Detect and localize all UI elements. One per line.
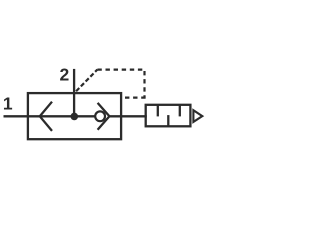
valve body — [28, 93, 121, 139]
svg-text:1: 1 — [3, 94, 13, 114]
silencer baffle center (from bottom) — [167, 115, 169, 126]
flow arrow (chevron pointing left) — [40, 102, 52, 131]
silencer baffle right (from top) — [179, 105, 181, 117]
pilot line diagonal (dashed) — [75, 70, 98, 93]
node junction dot — [71, 113, 79, 121]
wire port 2 vertical — [73, 69, 75, 117]
silencer baffle left (from top) — [157, 105, 159, 117]
pilot line top horizontal (dashed) — [97, 68, 145, 70]
wire valve to silencer — [109, 115, 146, 117]
pilot line right vertical (dashed) — [143, 70, 145, 98]
check valve seat chevron — [98, 103, 110, 130]
wire port 1 to check valve — [4, 115, 95, 117]
svg-text:2: 2 — [60, 65, 70, 85]
silencer body — [146, 105, 191, 127]
silencer outlet triangle — [193, 110, 202, 122]
pilot line lower horizontal to valve body (dashed) — [124, 96, 146, 98]
check valve ball — [95, 111, 105, 121]
